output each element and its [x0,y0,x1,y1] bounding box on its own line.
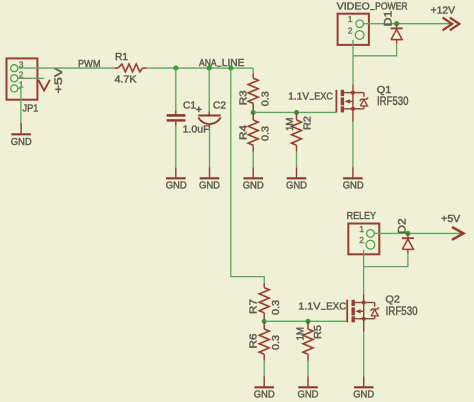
junction at D1 [394,21,399,26]
wire VIDEO_POWER pin2 to Q1 drain [352,40,354,93]
connector JP1 [7,58,38,99]
+12V supply arrow [443,18,460,31]
svg-text:GND: GND [243,181,264,192]
wire 1.1V_EXC to Q2 gate [264,320,347,322]
wire C1 to GND [175,126,177,167]
svg-text:R3: R3 [239,90,250,105]
svg-text:GND: GND [166,181,187,192]
svg-text:2: 2 [359,235,364,245]
capacitor C1 [167,111,186,127]
VIDEO_POWER pin 1 pad [356,20,364,28]
svg-text:Q2: Q2 [385,293,400,305]
transistor Q1 IRF530 [336,90,368,113]
wire JP1 pin1 to GND [18,88,21,124]
wire R4 to GND [252,152,254,168]
junction R5 node [305,319,310,324]
net label 1.1V_EXC (top) [288,91,333,102]
svg-text:GND: GND [298,390,319,401]
resistor R3 [248,74,258,112]
junction R3/R4 node [251,110,256,115]
resistor R2 [292,112,302,151]
ground symbol (R2) [287,167,307,178]
svg-text:+12V: +12V [431,5,456,16]
ground symbol (C1) [166,167,186,178]
svg-text:2: 2 [348,26,353,36]
svg-text:1M: 1M [285,118,296,132]
+5V supply arrow [452,227,464,240]
+5V supply symbol (JP1) [38,80,50,91]
svg-text:R2: R2 [303,116,314,130]
wire R6 to GND [263,361,265,377]
svg-text:GND: GND [11,137,32,148]
svg-text:D1: D1 [383,11,395,27]
svg-text:R7: R7 [249,299,260,314]
wire Q1 source to GND [352,109,354,168]
connector RELEY [348,224,379,255]
net label ANA_LINE [199,58,245,69]
resistor R6 [259,321,269,360]
label VIDEO_POWER [337,2,408,13]
RELEY pin 1 pad [367,230,375,238]
ground symbol (R4) [243,167,263,178]
wire pin1 to +5V [374,232,462,234]
diode D1 [391,24,403,44]
RELEY pin 2 pad [366,240,375,249]
wire ANA_LINE horizontal [147,67,254,69]
svg-text:IRF530: IRF530 [386,305,418,318]
wire C2 to GND [209,128,211,167]
svg-text:0.3: 0.3 [271,335,282,350]
svg-text:EXC: EXC [314,91,333,102]
svg-text:0.3: 0.3 [271,300,282,315]
ground symbol (R5) [298,376,318,387]
wire JP1 pin2 to +5V [18,77,44,79]
svg-text:0.3: 0.3 [261,126,272,141]
svg-text:+5V: +5V [53,67,65,94]
svg-text:0.3: 0.3 [261,91,272,106]
svg-text:VIDEO: VIDEO [337,2,371,13]
resistor R4 [248,112,258,151]
svg-text:RELEY: RELEY [347,211,377,222]
ground symbol (Q2) [354,376,374,387]
svg-text:C1: C1 [183,101,196,112]
junction ANA_LINE branch down [228,66,233,71]
svg-text:GND: GND [254,390,275,401]
svg-text:1.0uF: 1.0uF [183,124,210,136]
ground symbol (Q1) [343,167,363,178]
svg-text:R1: R1 [115,52,128,63]
wire 1.1V_EXC to Q1 gate [253,111,336,113]
svg-text:EXC: EXC [326,301,347,312]
junction at C1 [173,66,178,71]
VIDEO_POWER pin 2 pad [355,31,364,40]
svg-text:R5: R5 [313,325,324,339]
svg-text:1.1V: 1.1V [298,301,320,312]
wire pin1 to +12V [364,23,452,25]
wire into R3 [252,68,254,74]
resistor R5 [303,321,313,360]
wire D1 anode to drain [353,44,397,56]
wire D2 anode to drain [364,254,408,267]
wire Q2 source to GND [363,319,365,377]
wire C1 top [175,68,177,110]
resistor R7 [259,283,269,321]
wire R5 to GND [307,361,309,377]
ground symbol (R6) [254,376,274,387]
svg-text:PWM: PWM [78,58,101,70]
wire PWM from JP1 pin3 to R1 [18,67,114,69]
svg-text:4.7K: 4.7K [115,75,137,86]
junction R2 node [294,110,299,115]
transistor Q2 IRF530 [347,300,379,323]
svg-text:GND: GND [343,181,364,192]
svg-text:JP1: JP1 [23,104,39,115]
svg-text:R6: R6 [249,333,260,348]
svg-text:R4: R4 [239,125,250,140]
svg-text:D2: D2 [397,218,409,234]
svg-text:+5V: +5V [441,214,460,225]
svg-text:1: 1 [359,224,364,234]
JP1 pin 1 pad [11,85,18,92]
ground symbol (JP1) [11,123,31,134]
svg-text:GND: GND [199,181,220,192]
JP1 pin 2 pad [11,75,18,82]
wire RELEY pin2 to Q2 drain [363,250,365,303]
resistor R1 [114,64,146,72]
svg-text:LINE: LINE [222,58,245,69]
wire R2 to GND [296,152,298,168]
svg-text:GND: GND [286,181,307,192]
JP1 pin 3 pad [11,65,18,72]
junction at C2 [207,66,212,71]
junction R7/R6 node [262,319,267,324]
capacitor C2 [196,107,221,129]
diode D2 [402,234,414,254]
junction at D2 [405,231,410,236]
svg-text:1.1V: 1.1V [288,91,309,102]
svg-text:GND: GND [353,390,374,401]
svg-text:IRF530: IRF530 [377,95,409,108]
svg-text:1M: 1M [295,327,306,341]
wire ANA_LINE down to relay section [231,68,264,283]
connector VIDEO_POWER [338,14,369,45]
wire C2 top [208,68,210,111]
ground symbol (C2) [200,167,220,178]
svg-text:C2: C2 [213,101,226,112]
net label 1.1V_EXC (bottom) [298,301,347,312]
svg-text:1: 1 [348,14,353,24]
